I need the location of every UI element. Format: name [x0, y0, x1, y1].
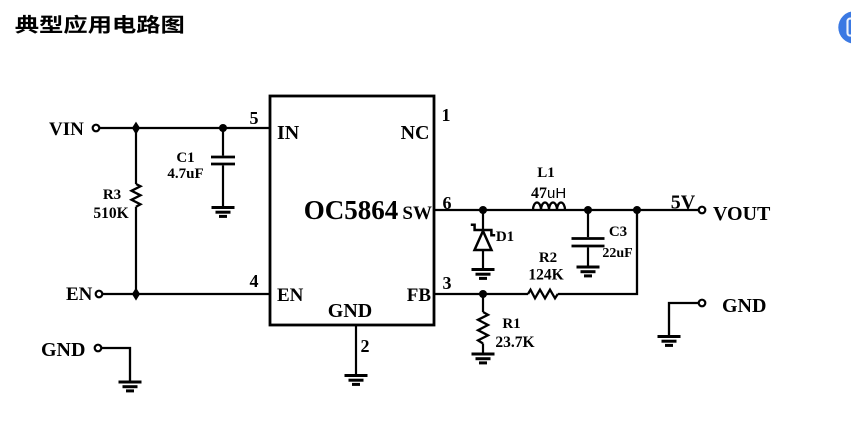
- resistor R3: [132, 184, 141, 207]
- svg-text:L1: L1: [537, 165, 555, 181]
- node L1-C3 junction: [584, 206, 592, 214]
- node VIN-R3 junction: [133, 123, 139, 133]
- svg-text:VIN: VIN: [49, 119, 84, 140]
- wire GND terminal to ground: [101, 348, 130, 381]
- node VIN-C1 junction: [219, 124, 227, 132]
- wire VIN down to R3: [135, 128, 137, 184]
- wire C3 to ground: [587, 247, 589, 266]
- node EN-R3 junction: [133, 289, 139, 299]
- terminal VOUT: [699, 207, 706, 214]
- wire R2 to feedback corner: [558, 210, 637, 294]
- svg-text:5: 5: [250, 108, 259, 128]
- node FB-R1 junction: [479, 290, 487, 298]
- wire R1 to ground: [482, 344, 484, 353]
- wire pin2 to ground: [355, 325, 357, 374]
- svg-text:23.7K: 23.7K: [495, 334, 534, 351]
- svg-text:GND: GND: [328, 300, 372, 322]
- wire FB down to R1: [482, 294, 484, 312]
- wire SW to VOUT: [434, 209, 699, 211]
- ground under R1: [472, 354, 495, 363]
- svg-text:FB: FB: [407, 285, 432, 306]
- terminal GND right: [699, 300, 706, 307]
- svg-text:124K: 124K: [528, 267, 563, 284]
- svg-text:NC: NC: [401, 122, 430, 144]
- terminal EN: [96, 291, 103, 298]
- ground under C1: [212, 208, 235, 217]
- svg-text:1: 1: [442, 105, 451, 125]
- wire FB pin to R2: [434, 293, 528, 295]
- terminal VIN: [93, 125, 100, 132]
- svg-text:IN: IN: [277, 122, 300, 144]
- node SW-D1 junction: [479, 206, 487, 214]
- diode D1 (schottky): [471, 225, 495, 250]
- svg-text:D1: D1: [496, 229, 514, 245]
- wire VIN to IN pin: [99, 127, 270, 129]
- wire EN to EN pin: [102, 293, 270, 295]
- IC U1 OC5864 box: [270, 96, 434, 325]
- ground lower-left: [119, 382, 142, 391]
- capacitor C1: [211, 157, 235, 164]
- svg-text:R1: R1: [502, 316, 520, 332]
- wire to C3: [587, 210, 589, 237]
- node VOUT-FB junction: [633, 206, 641, 214]
- svg-text:2: 2: [361, 336, 370, 356]
- wire VIN down to C1: [222, 128, 224, 156]
- wire GND right to ground: [669, 303, 699, 335]
- wire C1 to ground: [222, 165, 224, 207]
- svg-text:SW: SW: [402, 203, 432, 224]
- terminal GND left: [95, 345, 102, 352]
- svg-text:R2: R2: [539, 250, 557, 266]
- title 典型应用电路图: [16, 15, 184, 34]
- svg-text:GND: GND: [41, 339, 85, 361]
- resistor R1: [478, 312, 488, 344]
- ground under D1: [472, 270, 495, 279]
- svg-text:510K: 510K: [93, 205, 128, 222]
- ground lower-right: [658, 337, 681, 346]
- blue info badge: [838, 11, 851, 43]
- svg-text:4: 4: [250, 271, 259, 291]
- svg-text:R3: R3: [103, 187, 121, 203]
- svg-text:C1: C1: [176, 150, 194, 166]
- svg-text:VOUT: VOUT: [713, 203, 771, 225]
- svg-text:4.7uF: 4.7uF: [167, 166, 203, 182]
- svg-text:22uF: 22uF: [602, 246, 632, 261]
- svg-text:EN: EN: [277, 285, 304, 306]
- capacitor C3: [572, 239, 605, 247]
- ground under C3: [577, 267, 600, 276]
- svg-text:C3: C3: [609, 224, 627, 240]
- svg-text:GND: GND: [722, 295, 766, 317]
- resistor R2: [528, 290, 558, 299]
- ground under pin 2: [345, 376, 368, 385]
- svg-text:OC5864: OC5864: [304, 195, 399, 225]
- svg-text:3: 3: [443, 273, 452, 293]
- svg-text:5V: 5V: [671, 192, 696, 214]
- wire D1 to ground: [482, 250, 484, 268]
- inductor L1: [533, 203, 565, 210]
- svg-text:EN: EN: [66, 284, 93, 305]
- wire R3 to EN line: [135, 207, 137, 294]
- svg-text:47uH: 47uH: [531, 185, 566, 202]
- wire SW down to D1: [482, 210, 484, 229]
